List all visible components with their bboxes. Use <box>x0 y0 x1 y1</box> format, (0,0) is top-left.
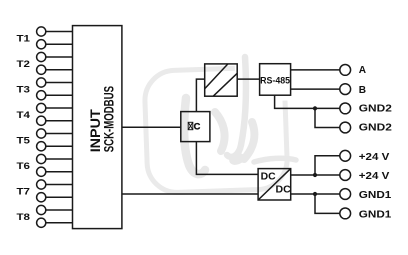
wire stub 6 <box>46 94 73 96</box>
svg-text:C: C <box>194 122 201 132</box>
wire +24V net <box>291 174 340 176</box>
wire +24V branch up <box>315 156 340 175</box>
svg-text:DC: DC <box>276 184 292 195</box>
terminal circle 9 <box>37 129 46 138</box>
svg-text:GND1: GND1 <box>359 190 392 201</box>
input terminal block box <box>73 26 122 229</box>
svg-text:T1: T1 <box>17 33 31 43</box>
galvanic isolator box <box>205 64 238 96</box>
svg-text:T2: T2 <box>17 59 31 69</box>
terminal circle 5 <box>37 78 46 87</box>
terminal circle GND2a <box>340 103 351 114</box>
isolator diagonal 1 <box>205 64 228 89</box>
wire stub 15 <box>46 209 73 211</box>
junction dot GND2 <box>313 106 317 110</box>
wire stub 9 <box>46 133 73 135</box>
terminal circle 1 <box>37 27 46 36</box>
wire stub 1 <box>46 31 73 33</box>
terminal circle 13 <box>37 180 46 189</box>
svg-text:DC: DC <box>261 172 277 183</box>
DC/DC converter box <box>258 169 291 200</box>
right terminal circles <box>340 65 351 219</box>
svg-text:T6: T6 <box>17 161 31 171</box>
wire stub 7 <box>46 107 73 109</box>
terminal circle +24Vb <box>340 170 351 181</box>
terminal circle 3 <box>37 52 46 61</box>
svg-text:+24 V: +24 V <box>359 152 390 163</box>
wire input box to DC/DC lower <box>122 193 258 195</box>
svg-text:B: B <box>359 85 366 96</box>
wire stub 5 <box>46 82 73 84</box>
RS-485 box <box>260 64 291 95</box>
svg-text:GND2: GND2 <box>359 104 392 115</box>
svg-text:T8: T8 <box>17 212 31 222</box>
terminal circle A <box>340 65 351 76</box>
wire stub 8 <box>46 120 73 122</box>
wire GND1 net <box>291 193 340 195</box>
svg-text:A: A <box>359 65 367 76</box>
junction dot GND1 <box>313 192 317 196</box>
DC/DC diagonal <box>258 169 291 200</box>
microcontroller box uC <box>181 112 210 142</box>
wire stub 12 <box>46 171 73 173</box>
wire stub 16 <box>46 222 73 224</box>
svg-text:T7: T7 <box>17 186 31 196</box>
wire uC top to isolator <box>196 79 204 112</box>
wire GND2 net <box>275 95 340 108</box>
terminal circle 14 <box>37 193 46 202</box>
svg-text:T5: T5 <box>17 135 31 145</box>
svg-text:SCK-MODBUS: SCK-MODBUS <box>101 86 116 152</box>
wire RS-485 to terminal B <box>291 88 340 90</box>
terminal circle GND1b <box>340 208 351 219</box>
svg-text:RS-485: RS-485 <box>260 76 290 86</box>
wire input box to uC <box>122 126 181 128</box>
wire stub 10 <box>46 145 73 147</box>
terminal circle 6 <box>37 91 46 100</box>
terminal circle 12 <box>37 167 46 176</box>
svg-text:T3: T3 <box>17 84 31 94</box>
junction dot +24V <box>313 173 317 177</box>
wire stub 13 <box>46 184 73 186</box>
wire uC bottom to DC/DC upper <box>196 142 258 175</box>
svg-text:GND1: GND1 <box>359 209 392 220</box>
wire stub 2 <box>46 43 73 45</box>
terminal circle 16 <box>37 218 46 227</box>
terminal circle 15 <box>37 205 46 214</box>
wire GND1 branch down <box>315 194 340 213</box>
isolator diagonal 2 <box>213 73 237 96</box>
wire stub 4 <box>46 69 73 71</box>
terminal circle GND2b <box>340 122 351 133</box>
wire stub 11 <box>46 158 73 160</box>
watermark logo outline <box>144 67 288 194</box>
wire stub 3 <box>46 56 73 58</box>
wire RS-485 to terminal A <box>291 69 340 71</box>
terminal circle 7 <box>37 103 46 112</box>
wire isolator to RS-485 <box>237 78 259 80</box>
terminal circle 2 <box>37 40 46 49</box>
terminal circle B <box>340 84 351 95</box>
terminal circle +24Va <box>340 150 351 161</box>
terminal circle 10 <box>37 142 46 151</box>
terminal circle 11 <box>37 154 46 163</box>
wire GND2 branch <box>315 108 340 127</box>
terminal circles T1..T8 with stubs <box>37 27 73 227</box>
tofu glyph box <box>188 122 193 129</box>
svg-text:+24 V: +24 V <box>359 171 390 182</box>
svg-text:T4: T4 <box>17 110 32 120</box>
terminal circle GND1a <box>340 189 351 200</box>
watermark inner strokes <box>184 57 296 174</box>
wire stub 14 <box>46 196 73 198</box>
terminal circle 4 <box>37 65 46 74</box>
terminal circle 8 <box>37 116 46 125</box>
svg-text:GND2: GND2 <box>359 123 392 134</box>
